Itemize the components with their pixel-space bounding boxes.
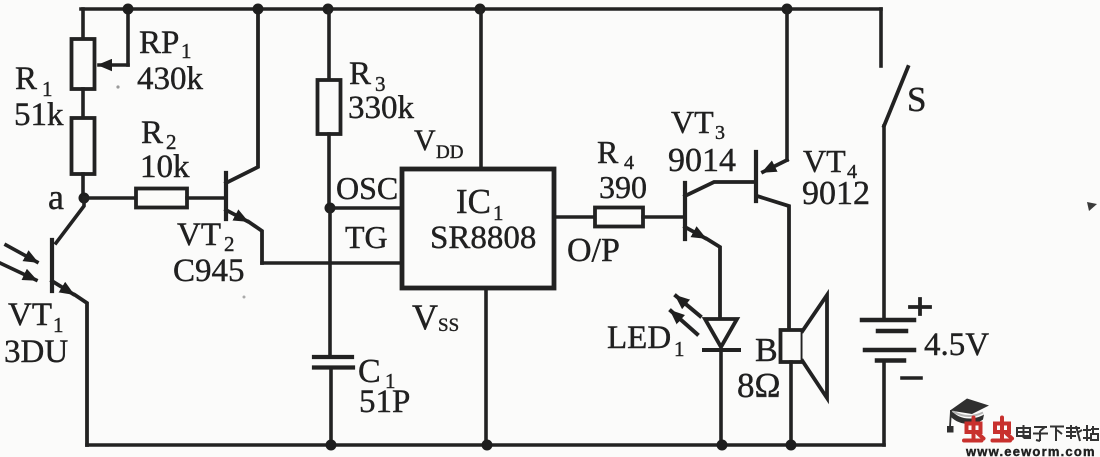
svg-text:9012: 9012	[802, 175, 870, 212]
transistor VT4 collector	[757, 196, 789, 330]
junction dot OSC node	[325, 203, 336, 214]
svg-text:VT: VT	[803, 143, 846, 179]
transistor VT2 emitter with arrow	[226, 210, 247, 221]
svg-text:1: 1	[181, 39, 192, 63]
wire RP1 to R1	[81, 89, 85, 118]
watermark char zi	[1033, 427, 1048, 441]
junction dot LED1 on bottom rail	[717, 440, 728, 451]
svg-text:a: a	[48, 177, 64, 217]
IC U1 SR8808 box	[402, 169, 554, 288]
svg-text:V: V	[414, 124, 436, 157]
svg-text:C945: C945	[173, 253, 245, 289]
svg-text:O/P: O/P	[567, 232, 620, 269]
LED LED1 cathode bar	[704, 348, 739, 352]
svg-text:3DU: 3DU	[4, 334, 68, 370]
junction dot C1 on bottom rail	[326, 440, 337, 451]
wire OSC node down to C1	[328, 208, 332, 357]
wire speaker to bottom rail	[789, 362, 793, 445]
svg-text:VT: VT	[8, 297, 52, 333]
wire node a to R2	[84, 196, 136, 200]
scan speck	[116, 85, 119, 88]
svg-text:S: S	[907, 80, 926, 119]
junction dot VT4 emitter on top rail	[782, 4, 793, 15]
svg-text:OSC: OSC	[336, 170, 398, 206]
wire TG pin from VT2 emitter to IC1	[262, 261, 402, 265]
light emission arrow 2 of LED1	[671, 311, 697, 334]
potentiometer RP1 wiper arm with arrow	[126, 9, 130, 65]
node a junction dot	[79, 193, 90, 204]
wire R2 to VT2 base	[187, 196, 226, 200]
resistor R2 body	[136, 189, 187, 208]
svg-text:10k: 10k	[140, 149, 190, 185]
svg-text:390: 390	[599, 169, 647, 205]
junction dot R3 on top rail	[323, 4, 334, 15]
resistor R4 body	[595, 208, 643, 227]
watermark chinese char chong 2 (red)	[995, 424, 1009, 433]
svg-text:R: R	[15, 61, 37, 97]
capacitor C1 top plate	[314, 355, 352, 359]
transistor VT3 emitter with arrow	[685, 227, 705, 238]
svg-text:R: R	[141, 115, 163, 151]
battery plus sign	[910, 299, 930, 314]
battery minus sign	[902, 376, 921, 380]
watermark char xia	[1050, 427, 1064, 442]
scan mark right edge	[1087, 202, 1097, 211]
svg-text:VT: VT	[177, 217, 221, 253]
phototransistor VT1 emitter with arrow	[52, 281, 73, 294]
battery plate 1 long positive	[862, 318, 914, 323]
junction dot VSS on bottom rail	[482, 440, 493, 451]
transistor VT2 base bar	[224, 173, 228, 219]
watermark chinese char chong 1 (red)	[967, 424, 981, 433]
watermark graduation cap board	[950, 399, 989, 415]
svg-text:SS: SS	[438, 315, 459, 336]
svg-text:IC: IC	[456, 182, 491, 221]
svg-text:SR8808: SR8808	[430, 220, 536, 256]
battery plate 3 long	[865, 348, 914, 353]
watermark graduation cap crown	[951, 410, 984, 424]
wire VT1 collector from node a	[56, 198, 84, 243]
junction dot VT2 collector on top rail	[253, 4, 264, 15]
wire R3 to OSC node	[327, 134, 331, 208]
speaker B horn	[803, 295, 828, 398]
battery plate 4 short negative	[877, 358, 904, 363]
light arrow 2 into VT1	[0, 263, 36, 280]
svg-text:LED: LED	[607, 320, 671, 356]
watermark char dian	[1017, 428, 1030, 436]
wire bottom ground rail	[87, 443, 884, 447]
svg-text:330k: 330k	[348, 90, 415, 126]
speaker B coil box	[781, 330, 803, 362]
light emission arrow 1 of LED1	[676, 296, 700, 316]
wire VDD pin	[479, 9, 483, 169]
svg-text:TG: TG	[345, 219, 388, 255]
wire top rail to R3	[327, 9, 331, 80]
svg-text:VT: VT	[671, 104, 714, 140]
light arrow 1 into VT1	[6, 245, 37, 262]
battery plate 2 short	[878, 329, 906, 334]
wire top rail to switch	[879, 9, 883, 66]
svg-text:www.eeworm.com: www.eeworm.com	[965, 444, 1096, 457]
phototransistor VT1 base bar	[50, 240, 54, 291]
watermark char zhan	[1083, 425, 1099, 441]
transistor VT3 collector	[685, 182, 756, 196]
svg-text:1: 1	[674, 337, 685, 361]
svg-text:B: B	[755, 332, 778, 369]
wire C1 to bottom rail	[329, 368, 333, 446]
svg-text:R: R	[349, 56, 371, 92]
switch S blade	[884, 67, 908, 126]
svg-text:51P: 51P	[359, 384, 410, 420]
svg-text:430k: 430k	[137, 61, 204, 97]
svg-text:8Ω: 8Ω	[737, 366, 781, 405]
wire left branch from top rail to RP1	[81, 9, 85, 37]
wire VSS pin to bottom rail	[484, 288, 488, 445]
scan speck	[243, 296, 246, 299]
transistor VT4 base bar	[754, 152, 758, 201]
junction dot VDD on top rail	[475, 4, 486, 15]
svg-text:RP: RP	[139, 25, 179, 61]
svg-text:4.5V: 4.5V	[924, 327, 989, 363]
wire top supply rail	[81, 7, 881, 11]
capacitor C1 bottom plate	[314, 365, 353, 369]
watermark graduation cap tassel	[950, 410, 951, 427]
transistor VT3 base bar	[683, 183, 687, 239]
wire O/P pin to R4	[554, 215, 595, 219]
svg-text:R: R	[597, 134, 619, 170]
wire switch to battery	[882, 126, 886, 319]
transistor VT2 collector	[226, 9, 258, 183]
transistor VT4 emitter with arrow (PNP)	[785, 9, 789, 160]
junction dot speaker on bottom rail	[786, 440, 797, 451]
svg-text:51k: 51k	[14, 97, 64, 133]
wire OSC pin to IC1	[330, 206, 402, 210]
potentiometer RP1 body	[72, 39, 95, 89]
junction dot RP1 wiper on top rail	[123, 4, 134, 15]
svg-text:3: 3	[715, 122, 725, 144]
LED LED1 triangle	[705, 319, 737, 347]
wire LED1 to bottom rail	[719, 350, 723, 445]
resistor R3 body	[318, 80, 341, 134]
svg-text:9014: 9014	[668, 142, 736, 179]
svg-text:V: V	[412, 297, 438, 337]
wire R4 to VT3 base	[643, 215, 685, 219]
wire R1 to node a	[81, 174, 85, 198]
svg-text:DD: DD	[436, 142, 463, 163]
watermark char zai	[1066, 425, 1082, 441]
wire battery to bottom rail	[882, 361, 886, 445]
resistor R1 body	[72, 118, 95, 174]
watermark graduation cap stripe	[953, 412, 983, 417]
